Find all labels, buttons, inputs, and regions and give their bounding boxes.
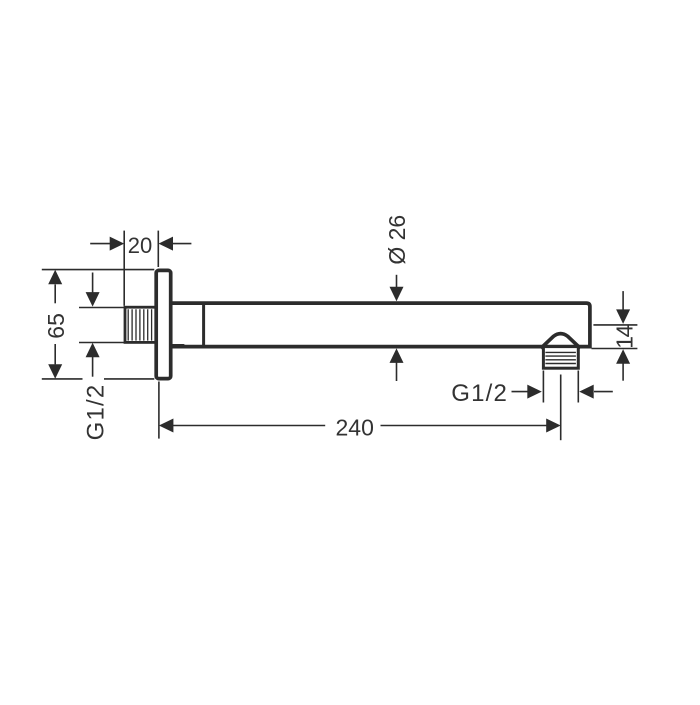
svg-text:240: 240: [336, 414, 374, 440]
svg-text:65: 65: [43, 313, 69, 339]
svg-text:G1/2: G1/2: [82, 384, 109, 441]
svg-text:20: 20: [128, 233, 152, 258]
arm tube: [170, 303, 590, 347]
svg-text:Ø 26: Ø 26: [384, 215, 410, 265]
outlet dome: [541, 334, 581, 349]
dim 14: [592, 291, 638, 381]
dim 240: [159, 375, 561, 441]
dim 20: [90, 231, 191, 306]
dim 65: [42, 270, 155, 379]
svg-text:G1/2: G1/2: [451, 380, 508, 407]
outlet nipple: [543, 347, 578, 369]
joint line: [202, 303, 205, 347]
dia 26 arrows: [396, 275, 398, 381]
cone step: [171, 345, 187, 347]
wall thread box: [125, 307, 157, 342]
escutcheon: [156, 270, 171, 378]
svg-text:14: 14: [612, 324, 638, 348]
G1/2 left arrows: [92, 273, 94, 377]
G1/2 right arrows + ext: [512, 371, 613, 403]
thread extension lines (left): [79, 308, 124, 343]
